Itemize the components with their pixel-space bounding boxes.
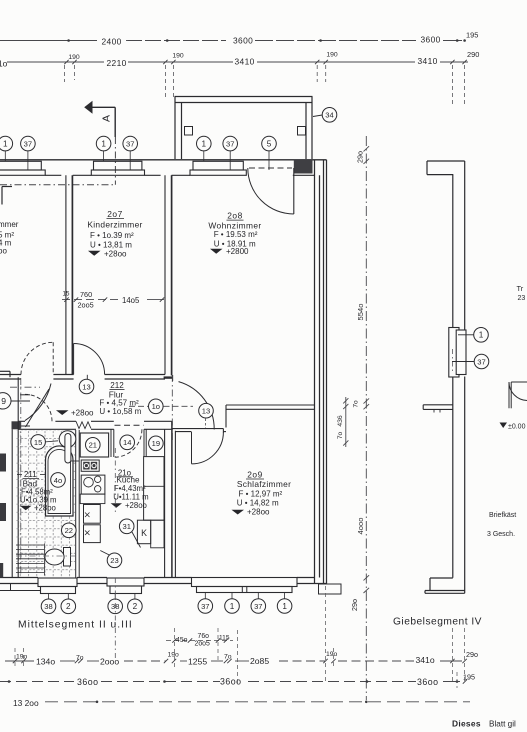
node circle 10 leaders: [129, 405, 148, 407]
svg-text:23: 23: [518, 295, 526, 302]
node circle 1: [474, 328, 489, 343]
node circle 22: [62, 523, 77, 538]
svg-text:7o: 7o: [76, 655, 84, 662]
svg-text:2oo5: 2oo5: [195, 640, 210, 647]
svg-text:Mittelsegment II u.III: Mittelsegment II u.III: [18, 620, 133, 631]
svg-text:+28oo: +28oo: [125, 501, 148, 510]
node circle 38: [108, 599, 123, 614]
Flur bottom wall: [18, 420, 25, 422]
svg-text:1: 1: [479, 331, 484, 340]
top wall inner face segments: [45, 174, 61, 176]
svg-text:36oo: 36oo: [220, 676, 242, 686]
node circle 1: [0, 136, 13, 151]
svg-text:37: 37: [201, 602, 209, 611]
node circle 23: [107, 553, 122, 568]
svg-text:37: 37: [477, 357, 485, 366]
svg-text:31: 31: [122, 522, 130, 531]
level marker: [500, 423, 508, 429]
svg-text:190: 190: [172, 53, 184, 60]
Bad hatched floor: [17, 431, 76, 577]
svg-text:Kinderzimmer: Kinderzimmer: [87, 220, 142, 230]
svg-text:4o: 4o: [54, 476, 62, 485]
Bad door leaf: [26, 389, 50, 427]
axis line through door 13: [171, 375, 173, 442]
svg-text:36oo: 36oo: [417, 677, 439, 687]
dimension row 1: [5, 660, 34, 662]
axis line left: [20, 378, 22, 575]
Kueche door jambs: [110, 429, 112, 457]
axis dash fragment left: [10, 386, 40, 388]
dashed projection drops from dimension rows: [64, 65, 66, 82]
svg-text:9: 9: [1, 396, 6, 406]
svg-text:1: 1: [282, 602, 287, 611]
node circle 37: [123, 136, 138, 151]
balcony outline: [175, 96, 313, 98]
Bad door alternate swing (dashed): [25, 394, 52, 421]
dark wall stub bottom left edge: [0, 563, 3, 578]
node circle 19: [149, 436, 164, 451]
svg-text:341o: 341o: [416, 655, 435, 665]
svg-text:37: 37: [126, 140, 134, 149]
svg-text:mmer: mmer: [0, 220, 19, 229]
svg-text:19o: 19o: [16, 653, 28, 660]
svg-text:2o85: 2o85: [250, 656, 269, 666]
dimension row A (2400 / 3600 / 3600 / 195): [0, 30, 479, 106]
svg-text:2210: 2210: [107, 58, 127, 68]
svg-text:Giebelsegment IV: Giebelsegment IV: [393, 617, 482, 628]
leader circle 23: [100, 551, 110, 556]
svg-text:2o7: 2o7: [107, 209, 122, 219]
svg-text:2: 2: [133, 602, 138, 611]
Bad left wall: [11, 429, 13, 578]
Flur-Wohnzimmer door arc (13): [179, 382, 215, 430]
interior dimension line 15/760/2005/1405: [62, 299, 120, 301]
Kueche door arc (dashed): [114, 429, 142, 457]
svg-text:Schlafzimmer: Schlafzimmer: [237, 479, 291, 489]
section line A dash-dot: [114, 137, 116, 185]
entrance door right edge: [508, 382, 510, 408]
Schlafzimmer entry wall: [172, 428, 224, 430]
cupboard 2: [84, 525, 101, 543]
svg-text:36oo: 36oo: [77, 677, 99, 687]
svg-text:4ooo: 4ooo: [356, 518, 365, 535]
node circle 21: [86, 438, 101, 453]
svg-text:1: 1: [230, 602, 235, 611]
wall corner fragment left edge: [2, 186, 12, 188]
svg-text:19o: 19o: [326, 651, 338, 658]
svg-text:3 Gesch.: 3 Gesch.: [487, 531, 515, 538]
node circle 37: [251, 599, 266, 614]
top window id circles: [4, 151, 6, 161]
node circle 1: [96, 136, 111, 151]
left room door arc (dashed): [21, 342, 53, 374]
Schlafzimmer door arc: [192, 432, 224, 464]
box next to fridge: [151, 520, 164, 548]
svg-text:195: 195: [466, 30, 478, 39]
svg-text:Briefkäst: Briefkäst: [489, 512, 516, 519]
node circle 15: [31, 435, 46, 450]
node circle 2: [128, 599, 143, 614]
wall pier right of balcony door (filled): [294, 160, 313, 174]
node circle 9 (cut): [0, 393, 11, 409]
node circle 13 leader: [86, 375, 88, 379]
svg-text:2: 2: [66, 602, 71, 611]
svg-text:Tr: Tr: [517, 284, 524, 293]
Bad door arc: [25, 384, 51, 421]
Kueche door lintel (dashed): [115, 424, 144, 426]
svg-text:1o: 1o: [152, 402, 160, 411]
svg-text:A: A: [100, 115, 112, 122]
svg-text:U • 13,81 m: U • 13,81 m: [90, 241, 132, 250]
Bad room label: [17, 474, 22, 476]
filled wall block left of Bad door: [12, 421, 21, 429]
svg-text:3410: 3410: [235, 57, 255, 67]
svg-text:29o: 29o: [356, 151, 365, 163]
bottom window id circles: [48, 594, 50, 600]
window W-211-bottom: [38, 578, 77, 587]
window W-207-top: [94, 161, 142, 170]
svg-text:U • 1o,58 m: U • 1o,58 m: [99, 407, 141, 416]
svg-text:U • 14,82 m: U • 14,82 m: [237, 499, 279, 508]
svg-text:211: 211: [24, 470, 37, 479]
balcony door swing arc: [248, 168, 294, 214]
svg-text:554o: 554o: [356, 304, 365, 321]
svg-text:1: 1: [3, 140, 8, 149]
svg-text:2400: 2400: [102, 37, 122, 47]
svg-text:190: 190: [68, 54, 80, 61]
svg-text:14: 14: [123, 438, 131, 447]
projection drops bottom: [14, 648, 16, 667]
svg-text:7o: 7o: [224, 654, 232, 661]
svg-text:3410: 3410: [418, 56, 438, 66]
niche zigzag in wall: [76, 421, 91, 428]
svg-text:13: 13: [202, 407, 210, 416]
main block right wall: [314, 160, 316, 584]
svg-text:29o: 29o: [466, 650, 478, 659]
Schlafzimmer door leaf: [191, 432, 193, 464]
wash basin: [59, 431, 76, 448]
svg-text:7o: 7o: [337, 432, 344, 440]
svg-text:Küche: Küche: [117, 475, 140, 484]
svg-text:15: 15: [34, 438, 42, 447]
vertical dimension line 5540/4000: [365, 136, 367, 700]
svg-text:+28oo: +28oo: [247, 507, 270, 516]
node circle 1 (giebel): [458, 334, 474, 336]
svg-text:19o: 19o: [168, 652, 180, 659]
node circle 34: [313, 115, 322, 117]
Giebelsegment bottom wall corner: [430, 577, 453, 579]
svg-text:190: 190: [326, 51, 338, 58]
node circle 1: [225, 599, 240, 614]
svg-text:14o5: 14o5: [122, 296, 140, 305]
Bad circles: [45, 441, 58, 442]
node circle 14: [120, 435, 135, 450]
svg-text:37: 37: [24, 140, 32, 149]
mini dimension cluster 450/760/2005/115: [166, 640, 233, 642]
svg-text:+28oo: +28oo: [71, 408, 94, 417]
balcony post right: [298, 127, 306, 136]
svg-text:Blatt gil: Blatt gil: [489, 720, 516, 729]
svg-text:38: 38: [44, 602, 52, 611]
Kueche/Schlafzimmer wall: [164, 429, 166, 577]
node circle 5: [262, 136, 277, 151]
balcony door leaf (5): [293, 168, 295, 214]
svg-text:115: 115: [219, 635, 230, 642]
node circle 37: [223, 136, 238, 151]
wall between Kinderzimmer and Wohnzimmer: [164, 175, 166, 374]
svg-text:45o: 45o: [176, 637, 188, 644]
svg-text:1: 1: [101, 140, 106, 149]
node circle 31: [119, 519, 134, 534]
node circle 1: [197, 136, 212, 151]
svg-text:2o8: 2o8: [227, 211, 242, 221]
Giebelsegment top wall: [427, 160, 465, 162]
svg-text:oo: oo: [0, 247, 7, 256]
interior wall stub: [423, 404, 453, 406]
node circle 2: [61, 599, 76, 614]
svg-text:34: 34: [325, 111, 333, 120]
svg-text:37: 37: [226, 140, 234, 149]
svg-text:1255: 1255: [188, 656, 207, 666]
svg-text:19: 19: [152, 439, 160, 448]
svg-text:23: 23: [110, 556, 118, 565]
window W-208-top: [193, 161, 243, 170]
svg-text:1o: 1o: [0, 58, 8, 68]
section line continuation: [114, 448, 116, 512]
svg-text:13: 13: [82, 382, 90, 391]
svg-text:29o: 29o: [350, 599, 359, 611]
left room door leaf (dashed): [52, 342, 54, 374]
small end window right: [319, 584, 342, 594]
Kinderzimmer door leaf: [73, 344, 75, 375]
stove: [81, 475, 105, 494]
svg-text:15: 15: [63, 290, 70, 297]
left wall door jamb ticks: [20, 394, 30, 396]
window W-209-bottom: [192, 578, 298, 587]
svg-text:2ooo: 2ooo: [100, 656, 119, 666]
bottom exterior wall: [0, 577, 38, 579]
bathtub: [46, 446, 74, 516]
node circle 38: [41, 599, 56, 614]
svg-text:134o: 134o: [36, 656, 55, 666]
svg-text:±0.00: ±0.00: [508, 424, 526, 431]
stair treads: [16, 544, 44, 546]
window W-0-top (left, cut): [0, 161, 41, 170]
svg-text:F • 1o.39 m²: F • 1o.39 m²: [90, 231, 134, 240]
balcony door lintel (dashed): [249, 167, 292, 169]
dark wall stubs at left edge: [0, 454, 6, 472]
svg-text:+28oo: +28oo: [34, 504, 57, 513]
svg-text:U•11.11 m: U•11.11 m: [113, 492, 148, 501]
Flur top wall left jog: [0, 370, 10, 372]
svg-text:76o: 76o: [198, 633, 210, 640]
Kinderzimmer door arc: [74, 344, 105, 375]
Giebelsegment window: [449, 328, 459, 378]
node circle 37: [198, 599, 213, 614]
svg-text:7o: 7o: [353, 400, 360, 408]
svg-text:37: 37: [254, 602, 262, 611]
svg-text:F • 12,97 m²: F • 12,97 m²: [239, 489, 283, 498]
tall cabinet: [144, 457, 164, 521]
side dim line 436: [345, 397, 347, 447]
dimension row 2: [0, 681, 74, 683]
svg-text:13 2oo: 13 2oo: [13, 698, 39, 708]
fridge K: [137, 520, 150, 544]
svg-text:290: 290: [467, 50, 479, 59]
svg-text:760: 760: [80, 290, 92, 299]
node circle 1o: [149, 399, 164, 414]
top exterior wall: [0, 159, 327, 161]
svg-text:22: 22: [65, 526, 73, 535]
balcony post left: [185, 127, 193, 136]
svg-text:K: K: [141, 528, 147, 538]
Giebelsegment left wall: [452, 175, 454, 330]
svg-text:2oo5: 2oo5: [78, 300, 94, 309]
svg-text:Dieses: Dieses: [452, 719, 481, 729]
sink unit 00: [81, 460, 99, 471]
node circle 4o: [51, 473, 66, 488]
WC: [64, 548, 71, 567]
svg-text:436: 436: [337, 415, 344, 427]
node circle 13: [79, 379, 94, 394]
section arrow A: [84, 101, 92, 114]
window W-210-bottom: [107, 578, 144, 586]
node circle 37: [21, 136, 36, 151]
svg-text:+2800: +2800: [226, 247, 249, 256]
svg-text:5: 5: [267, 140, 272, 149]
svg-text:21: 21: [89, 441, 97, 450]
kitchen corner unit with circle 21: [80, 433, 108, 457]
node circle 37 (giebel): [452, 361, 474, 363]
Bad/Kueche wall: [75, 430, 77, 578]
svg-text:3600: 3600: [421, 34, 441, 44]
counter: [80, 494, 105, 504]
node circle 1: [277, 599, 292, 614]
svg-text:F • 19.53 m²: F • 19.53 m²: [214, 230, 258, 239]
svg-text:+28oo: +28oo: [104, 250, 127, 259]
node circle 13: [199, 403, 214, 418]
leader circle 31: [132, 532, 141, 548]
Wohnzimmer bottom wall: [226, 404, 315, 406]
cupboard 1: [84, 505, 101, 524]
svg-text:3600: 3600: [233, 35, 253, 45]
svg-text:1: 1: [202, 140, 207, 149]
node circle 37: [474, 354, 489, 369]
Flur top wall: [0, 374, 21, 376]
wall between left room and Kinderzimmer: [65, 175, 67, 374]
